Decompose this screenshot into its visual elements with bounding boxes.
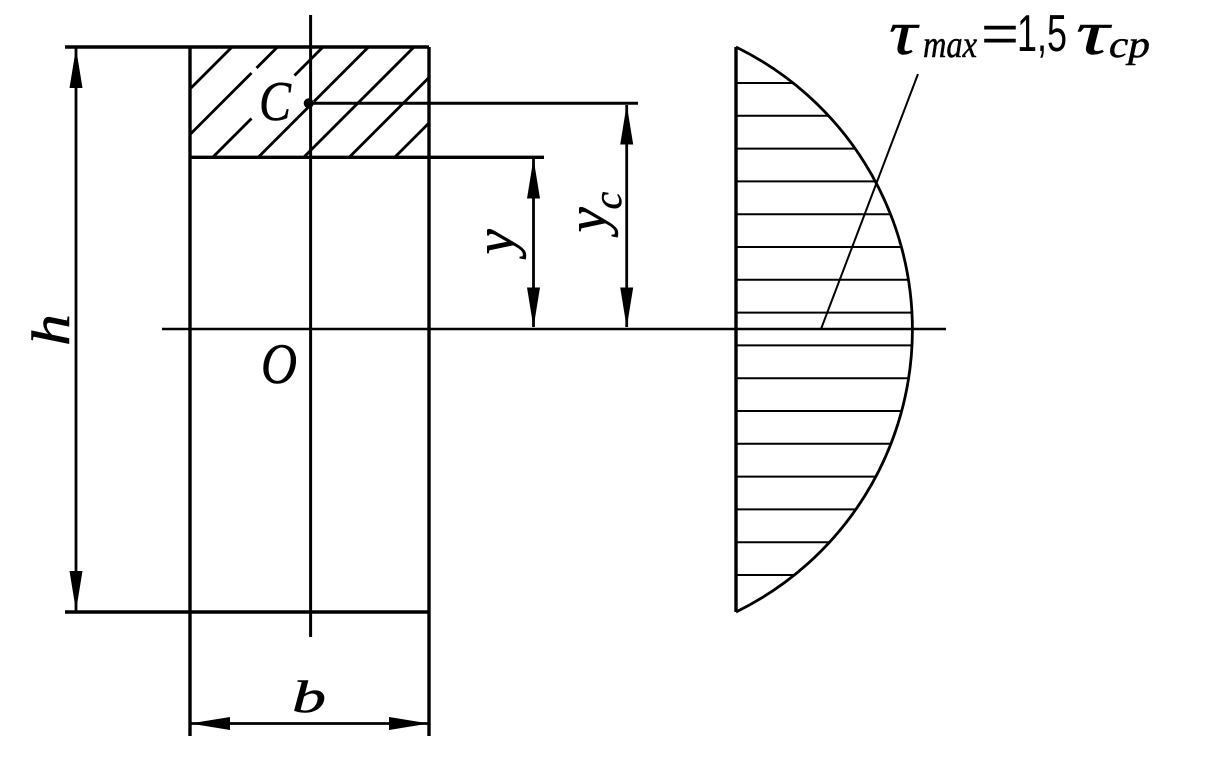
top edge line of section with extension xyxy=(65,45,429,48)
diagram hatch line 4 xyxy=(736,180,875,182)
dimension b left arrowhead xyxy=(190,717,230,730)
svg-text:cp: cp xyxy=(1109,24,1150,66)
diagram hatch line 7 xyxy=(736,279,909,281)
diagram hatch line 14 xyxy=(736,508,856,510)
svg-text:C: C xyxy=(259,71,292,133)
hatch line 3 segment a xyxy=(213,119,252,158)
svg-text:τ: τ xyxy=(889,0,921,68)
svg-text:y: y xyxy=(556,207,619,238)
diagram hatch line 2 xyxy=(736,115,829,117)
svg-text:h: h xyxy=(21,314,81,346)
diagram hatch line 8 xyxy=(736,312,912,314)
dimension h top arrowhead xyxy=(70,48,83,88)
label yc xyxy=(556,192,630,238)
diagram hatch line 15 xyxy=(736,541,830,543)
diagram hatch line 1 xyxy=(736,82,793,84)
svg-text:b: b xyxy=(292,671,326,722)
hatch line 2 segment a xyxy=(190,73,252,135)
bottom edge line of section with extension xyxy=(65,610,429,613)
shear stress parabola arc xyxy=(736,47,912,612)
dimension b line xyxy=(190,722,429,725)
hatch line 3 segment b xyxy=(295,47,324,76)
diagram hatch line 9 xyxy=(736,344,912,346)
svg-text:=: = xyxy=(981,5,1019,63)
svg-text:max: max xyxy=(923,24,977,66)
dimension yc top arrowhead xyxy=(620,105,633,145)
diagram hatch line 3 xyxy=(736,148,855,150)
hatch line 4 segment a xyxy=(259,106,311,158)
dimension y bottom arrowhead xyxy=(527,288,540,328)
centroid dot xyxy=(304,98,314,108)
dimension b right arrowhead xyxy=(389,717,429,730)
diagram hatch line 10 xyxy=(736,377,909,379)
diagram hatch line 16 xyxy=(736,574,794,576)
stress diagram left edge xyxy=(734,47,737,612)
dimension h bottom arrowhead xyxy=(70,571,83,611)
diagram hatch line 5 xyxy=(736,213,891,215)
section right edge xyxy=(427,47,430,736)
dimension y top arrowhead xyxy=(527,159,540,199)
diagram hatch line 11 xyxy=(736,410,902,412)
dimension h line xyxy=(75,48,78,611)
hatch line 7 xyxy=(395,123,429,157)
diagram hatch line 12 xyxy=(736,443,891,445)
hatch line 1 xyxy=(190,47,232,89)
diagram hatch line 13 xyxy=(736,476,876,478)
svg-text:1,5: 1,5 xyxy=(1017,5,1067,63)
svg-text:y: y xyxy=(464,229,527,260)
section left edge xyxy=(188,47,191,736)
line through centroid C xyxy=(308,102,638,105)
hatch line 4 segment b xyxy=(314,47,369,102)
svg-text:O: O xyxy=(261,333,297,396)
svg-text:c: c xyxy=(585,192,630,210)
shaded area bottom line xyxy=(190,156,544,159)
svg-text:τ: τ xyxy=(1076,0,1113,68)
dimension yc line xyxy=(625,105,628,327)
vertical centerline xyxy=(309,15,312,637)
leader line to tau max xyxy=(821,74,918,329)
diagram hatch line 6 xyxy=(736,246,901,248)
hatch line 5 xyxy=(304,47,414,157)
hatch line 6 xyxy=(350,78,430,158)
neutral axis through O xyxy=(162,328,946,331)
hatch line 2 segment b xyxy=(257,47,278,68)
dimension y line xyxy=(532,159,535,327)
dimension yc bottom arrowhead xyxy=(620,288,633,328)
